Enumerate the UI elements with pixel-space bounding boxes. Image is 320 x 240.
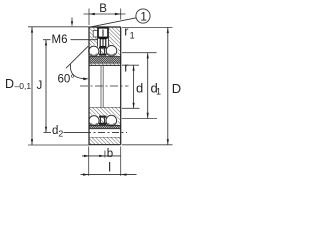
svg-text:d: d — [52, 125, 58, 137]
cage top — [99, 47, 107, 56]
bore line top — [89, 64, 121, 66]
hole axis — [84, 132, 127, 134]
svg-text:1: 1 — [130, 31, 135, 41]
r1 label — [124, 25, 134, 41]
ball halo bottom-left — [88, 114, 101, 127]
light band top — [89, 63, 121, 65]
svg-text:D: D — [172, 81, 181, 96]
ball halo bottom-right — [105, 114, 118, 127]
ball halo top-right — [105, 44, 118, 57]
hole band — [89, 129, 121, 138]
svg-text:2: 2 — [59, 129, 64, 139]
protrusion arrow — [71, 18, 73, 27]
svg-text:d: d — [136, 80, 143, 95]
bearing section drawing (ZKLF type) — [0, 0, 191, 180]
screw slot edges — [97, 27, 99, 46]
d1 dimension — [147, 53, 161, 119]
screw slot — [98, 27, 109, 46]
b dimension — [82, 148, 121, 160]
l dimension — [81, 147, 137, 176]
D bottom extension — [122, 144, 173, 146]
J dimension — [37, 40, 48, 133]
ball top-left — [89, 46, 99, 56]
svg-text:1: 1 — [140, 10, 147, 24]
lube hole verticals — [100, 65, 102, 107]
crosshatch band top — [89, 57, 121, 64]
svg-text:r: r — [124, 25, 128, 39]
60 degrees angle — [58, 46, 89, 85]
outer ring top hatch — [89, 27, 121, 57]
ball halo top-left — [87, 45, 100, 58]
d extensions — [122, 64, 139, 66]
M6 label — [43, 34, 98, 46]
bottom face extension — [28, 144, 89, 146]
svg-text:60°: 60° — [58, 74, 75, 86]
svg-text:D: D — [5, 77, 14, 91]
B dimension — [84, 3, 126, 25]
D-0,1 dimension — [5, 27, 33, 145]
screw seat — [98, 37, 108, 39]
part outline — [89, 27, 121, 145]
ball bottom-right — [106, 115, 117, 126]
recess left of head — [93, 31, 97, 38]
svg-text:B: B — [99, 3, 107, 15]
screw shank — [100, 39, 106, 47]
bottom flange hatch — [89, 137, 121, 144]
svg-text:–0,1: –0,1 — [15, 81, 32, 91]
top face extension — [28, 26, 89, 28]
d1 extensions — [122, 52, 157, 54]
svg-text:M6: M6 — [52, 34, 68, 46]
svg-text:b: b — [107, 148, 113, 160]
svg-text:J: J — [37, 80, 43, 92]
screw head — [98, 28, 108, 37]
d dimension — [133, 65, 144, 108]
svg-text:l: l — [108, 160, 111, 174]
balloon 1 — [89, 9, 150, 27]
inner hatch bottom — [89, 108, 121, 126]
D dimension — [167, 27, 181, 144]
cage bottom — [99, 116, 107, 125]
d2 label — [44, 125, 85, 139]
svg-text:r: r — [124, 61, 128, 75]
svg-text:1: 1 — [156, 86, 161, 96]
main axis — [80, 85, 129, 87]
ball bottom-left — [89, 116, 99, 126]
band boundary lines — [89, 56, 121, 58]
crosshatch band bottom — [89, 125, 121, 128]
bore line bottom — [89, 107, 121, 109]
D top extension — [122, 26, 173, 28]
ball top-right — [106, 46, 117, 57]
